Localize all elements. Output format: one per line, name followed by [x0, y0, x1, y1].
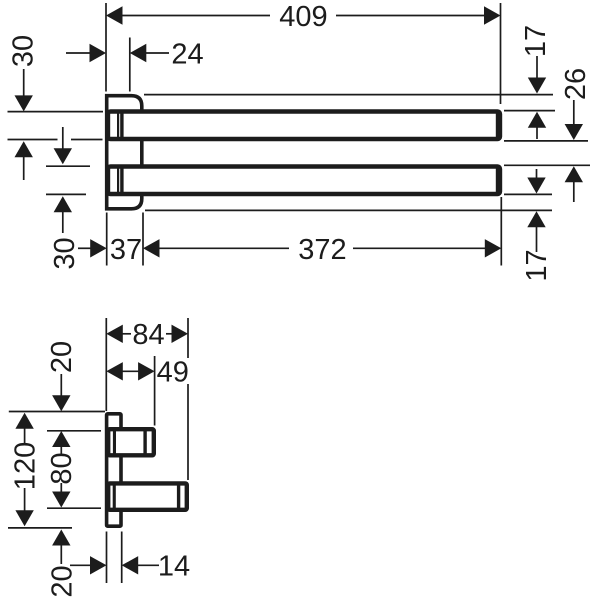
extension line y=165.3 (bar2 top, right) [504, 164, 590, 166]
dimension 120 [9, 413, 41, 527]
arm 1 (upper, side view) [108, 429, 154, 456]
extension line x=129.8 (hinge axis) [129, 38, 131, 92]
extension line x=106 (plate left edge, top) [105, 3, 107, 92]
svg-text:30: 30 [7, 35, 39, 67]
svg-text:120: 120 [9, 442, 41, 490]
svg-text:409: 409 [279, 1, 327, 33]
dimension 30 (bottom left, bar2 height) [49, 127, 81, 270]
dimension 49 [106, 357, 189, 389]
extension line x=188 (arm2 tip) [187, 318, 189, 480]
extension line y=194.4 (bar2 bottom, right) [504, 193, 552, 195]
dimension 17 (bottom right) [521, 169, 553, 282]
dimension 84 [106, 319, 188, 351]
dimension 26 (right, gap between bars) [560, 68, 592, 202]
arm 2 (lower, side view) [108, 483, 187, 511]
extension line y=139.5 (bar1 bottom, left) [8, 139, 103, 141]
svg-text:37: 37 [110, 234, 142, 266]
extension line x=154.6 (arm1 tip) [154, 356, 156, 426]
svg-text:84: 84 [132, 319, 164, 351]
extension line y=210.4 (plate bottom, right) [145, 209, 552, 211]
dimension 17 (top right) [520, 25, 552, 139]
wall plate (front view) [107, 96, 142, 209]
svg-text:372: 372 [298, 234, 346, 266]
svg-text:14: 14 [158, 551, 190, 583]
extension line y=411.5 (plate top, side view left) [9, 411, 105, 413]
extension line y=194.4 (bar2 bottom, left) [46, 193, 86, 195]
extension line x=143 (plate right, bottom) [142, 213, 144, 266]
svg-text:24: 24 [171, 38, 203, 70]
svg-text:26: 26 [560, 68, 592, 100]
dimension 37 [78, 234, 160, 266]
extension line y=527.9 (plate bottom, left) [8, 527, 72, 529]
svg-text:17: 17 [520, 25, 552, 57]
dimension 80 (shared arrows with 20s) [46, 431, 78, 508]
towel bar 2 (lower bar) [108, 166, 500, 196]
dimension 20 (side view bottom) [46, 530, 78, 598]
extension line y=140.9 (bar1 bottom, right) [504, 140, 588, 142]
svg-text:17: 17 [521, 249, 553, 281]
extension line y=94.6 (plate top, right) [144, 94, 553, 96]
svg-text:49: 49 [157, 357, 189, 389]
svg-text:80: 80 [46, 452, 78, 484]
extension line x=500.5 (bar right end, top) [500, 3, 502, 104]
svg-text:20: 20 [46, 341, 78, 373]
extension line x=121.7 (plate right, below) [121, 532, 123, 584]
dimension 14 [70, 551, 190, 583]
extension line y=508.2 (arm2 bottom, left) [47, 507, 101, 509]
dimension 372 [159, 234, 502, 266]
svg-text:20: 20 [46, 565, 78, 597]
extension line x=106.3 (plate left, side view top) [105, 318, 107, 411]
extension line y=166.2 (bar2 top, left) [46, 165, 90, 167]
svg-text:30: 30 [49, 237, 81, 269]
dimension 24 [66, 38, 204, 70]
dimension 30 (top left, bar1 height) [7, 35, 39, 180]
dimension 409 [106, 1, 501, 33]
extension line y=111.6 (bar1 top, left) [8, 111, 104, 113]
extension line x=106.5 (plate left, below) [106, 532, 108, 584]
towel bar 1 (upper bar) [108, 111, 500, 141]
extension line y=110.6 (bar1 top, right) [504, 110, 555, 112]
extension line y=430.8 (arm1 top, left) [47, 430, 101, 432]
extension line x=501.3 (bar right end, bottom) [500, 197, 502, 266]
extension line x=106.7 (plate left, bottom) [106, 213, 108, 266]
dimension 20 (side view top) [46, 341, 78, 411]
wall plate (side view) [107, 414, 121, 526]
